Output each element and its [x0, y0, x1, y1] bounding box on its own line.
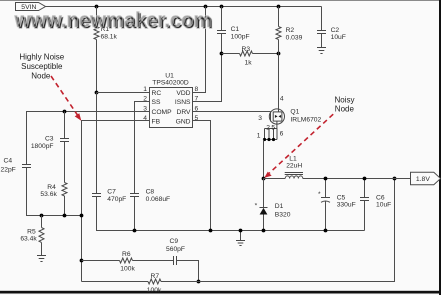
svg-text:Highly Noise: Highly Noise	[19, 52, 64, 61]
svg-text:TPS40200D: TPS40200D	[152, 79, 189, 86]
svg-text:Node: Node	[335, 104, 355, 113]
svg-text:Susceptible: Susceptible	[21, 62, 63, 71]
svg-text:C9: C9	[170, 238, 179, 245]
resistor R4	[62, 183, 67, 197]
wire R5 to ground	[41, 243, 43, 256]
svg-text:FB: FB	[152, 119, 161, 126]
ground main bus	[240, 231, 242, 241]
wire R1 to RC node	[96, 40, 98, 93]
node junction GNDpin/bus	[209, 229, 213, 233]
op-amp U1 TPS40200D body	[150, 88, 193, 128]
svg-text:R3: R3	[242, 46, 251, 53]
node junction R3/R2	[277, 52, 281, 56]
capacitor C2	[317, 30, 326, 32]
right border	[439, 0, 441, 295]
wire R7 row left	[82, 281, 149, 283]
top border line	[0, 0, 441, 2]
bottom border	[0, 291, 441, 294]
wire FB pin 4 / feedback column	[82, 121, 150, 282]
svg-text:22uH: 22uH	[286, 162, 302, 169]
svg-text:100k: 100k	[147, 287, 162, 294]
wire switch node rail right	[303, 178, 411, 180]
svg-text:5: 5	[271, 124, 275, 131]
svg-text:R4: R4	[47, 184, 56, 191]
node junction C8/bus	[133, 229, 137, 233]
ground C2	[317, 48, 326, 54]
ground R5	[37, 256, 46, 262]
node junction C9/R7 row	[197, 280, 201, 284]
wire DRV pin 6 to Q1 gate	[193, 111, 271, 113]
svg-text:10uF: 10uF	[376, 201, 391, 208]
svg-text:Noisy: Noisy	[335, 95, 355, 104]
inductor L1	[285, 173, 303, 179]
svg-text:1: 1	[143, 86, 147, 93]
svg-text:100pF: 100pF	[231, 34, 250, 41]
wire R7 row to output column	[161, 179, 395, 282]
node junction COMP/C3	[63, 110, 67, 114]
node junction switch node	[262, 177, 266, 181]
wire C3 to R4	[64, 142, 66, 183]
svg-text:2: 2	[266, 124, 270, 131]
svg-text:B320: B320	[275, 211, 291, 218]
wire 5VIN rail	[46, 6, 322, 8]
svg-text:www.newmaker.com: www.newmaker.com	[14, 9, 212, 32]
resistor R6	[120, 258, 133, 263]
watermark www.newmaker.com	[14, 9, 214, 34]
svg-text:7: 7	[195, 95, 199, 102]
node junction C1/R3	[220, 52, 224, 56]
wire Q1 source to switch node	[263, 140, 265, 179]
capacitor C6	[364, 179, 366, 198]
transistor Q1 IRLM6702	[269, 109, 284, 124]
svg-text:R7: R7	[151, 273, 160, 280]
svg-text:0.039: 0.039	[286, 34, 303, 41]
wire C7 to ground bus / ground bus	[97, 197, 365, 231]
svg-text:100k: 100k	[120, 266, 135, 273]
transistor Q1 source package pins	[264, 124, 278, 139]
wire COMP to C3	[64, 112, 66, 139]
wire rail to C1	[221, 7, 223, 31]
svg-text:*: *	[318, 191, 321, 198]
node junction rail/C1	[220, 5, 224, 9]
capacitor C1	[217, 30, 226, 32]
capacitor C9	[173, 256, 175, 265]
node 5VIN input flag	[16, 3, 46, 11]
capacitor C7	[92, 193, 101, 195]
node junction D1/bus	[262, 229, 266, 233]
resistor R5	[39, 228, 44, 243]
wire C4 to comp bottom	[27, 168, 82, 216]
svg-text:C3: C3	[45, 135, 54, 142]
svg-text:SS: SS	[152, 99, 161, 106]
wire rail to R2	[278, 7, 280, 27]
wire rail to R1	[96, 7, 98, 27]
wire rail to C2	[321, 7, 323, 31]
resistor R7	[148, 279, 161, 284]
wire GND pin 5 to bus	[193, 121, 211, 231]
svg-text:1k: 1k	[245, 59, 253, 66]
svg-text:RC: RC	[152, 90, 162, 97]
wire RC to C7	[96, 93, 98, 194]
svg-text:D1: D1	[275, 203, 284, 210]
diode D1 B320	[263, 179, 265, 208]
wire R2 node to Q1 drain	[278, 54, 280, 110]
svg-text:63.4k: 63.4k	[20, 236, 37, 243]
svg-text:R5: R5	[27, 229, 36, 236]
node junction rail/R1	[95, 5, 99, 9]
svg-text:4: 4	[280, 95, 284, 102]
svg-text:53.6k: 53.6k	[40, 191, 57, 198]
wire SS pin 2 to C8	[135, 102, 150, 194]
svg-text:ISNS: ISNS	[175, 99, 191, 106]
node junction R5/bottom	[40, 214, 44, 218]
node junction R4/bottom	[63, 214, 67, 218]
wire R2 to R3 node	[278, 40, 280, 54]
svg-text:10uF: 10uF	[331, 34, 346, 41]
node junction rail/VDD	[204, 5, 208, 9]
wire R4 to comp bottom	[64, 196, 66, 216]
svg-text:C2: C2	[331, 27, 340, 34]
svg-text:R6: R6	[122, 251, 131, 258]
svg-text:C1: C1	[231, 26, 240, 33]
svg-text:C4: C4	[4, 157, 13, 164]
node junction feedback/output rail	[393, 177, 397, 181]
capacitor C5 (polarized)	[325, 179, 327, 198]
wire C8 to bus	[134, 197, 136, 231]
wire C2 to ground	[321, 34, 323, 48]
capacitor C3	[60, 138, 69, 140]
svg-text:GND: GND	[176, 119, 191, 126]
wire C1 to ISNS pin 7	[193, 34, 222, 102]
svg-text:6: 6	[280, 130, 284, 137]
node junction R1/RC	[95, 91, 99, 95]
svg-text:DRV: DRV	[177, 109, 192, 116]
svg-text:1.8V: 1.8V	[416, 176, 430, 183]
resistor R3	[240, 51, 253, 56]
red arrow to FB node	[51, 76, 78, 116]
svg-text:1800pF: 1800pF	[31, 143, 54, 150]
wire VDD pin 8 to rail	[193, 7, 206, 93]
svg-text:330uF: 330uF	[337, 201, 356, 208]
svg-text:*: *	[255, 202, 258, 209]
node junction FB/R6 row	[80, 259, 84, 263]
svg-text:22pF: 22pF	[1, 167, 16, 174]
wire R6 to C9	[133, 260, 174, 262]
wire switch node rail left	[264, 178, 286, 180]
node junction FB/comp bottom	[80, 214, 84, 218]
svg-text:470pF: 470pF	[107, 196, 126, 203]
svg-text:COMP: COMP	[152, 109, 173, 116]
svg-text:0.068uF: 0.068uF	[146, 196, 171, 203]
svg-text:Node: Node	[31, 72, 51, 81]
svg-text:IRLM6702: IRLM6702	[290, 117, 321, 124]
svg-text:R2: R2	[286, 27, 295, 34]
wire R3 left	[222, 53, 240, 55]
node junction rail/R2	[277, 5, 281, 9]
red arrow to switch node	[269, 114, 333, 173]
svg-text:68.1k: 68.1k	[101, 33, 118, 40]
svg-text:3: 3	[258, 115, 262, 122]
resistor R2	[276, 27, 281, 40]
capacitor C8	[130, 193, 139, 195]
svg-text:VDD: VDD	[176, 90, 190, 97]
wire R3 right	[253, 53, 279, 55]
wire RC pin 1	[97, 92, 150, 94]
wire R6 row left	[82, 260, 120, 262]
svg-text:Q1: Q1	[290, 109, 299, 116]
node 1.8V output flag	[411, 172, 441, 185]
svg-text:C7: C7	[107, 189, 116, 196]
capacitor C4	[22, 164, 31, 166]
svg-text:1: 1	[257, 133, 261, 140]
wire R5 branch	[41, 216, 43, 228]
wire COMP pin 3 left	[27, 112, 150, 165]
resistor R1	[94, 27, 99, 40]
svg-text:8: 8	[195, 86, 199, 93]
svg-text:C8: C8	[146, 189, 155, 196]
svg-text:560pF: 560pF	[166, 246, 185, 253]
wire C9 to R7 row	[177, 261, 199, 282]
